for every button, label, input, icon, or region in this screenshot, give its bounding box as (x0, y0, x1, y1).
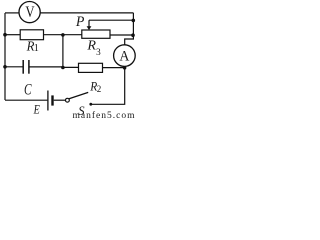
junction middle column / capacitor row (61, 66, 65, 70)
wire top-left segment (5, 12, 19, 14)
wire capacitor row left (5, 66, 23, 68)
svg-text:1: 1 (34, 43, 39, 54)
junction rheostat right / right vertical (131, 33, 135, 37)
switch right contact dot (89, 103, 92, 106)
wire R2 to ammeter branch (103, 67, 125, 69)
svg-text:3: 3 (96, 48, 101, 58)
resistor R1 (20, 30, 43, 40)
wire middle column vertical (62, 35, 64, 68)
capacitor C plates (23, 60, 29, 74)
svg-text:E: E (33, 102, 40, 116)
wire right vertical upper with jog to ammeter (125, 13, 134, 45)
svg-text:manfen5.com: manfen5.com (73, 110, 136, 120)
wire capacitor to R2 (29, 66, 79, 69)
wire wiper connection (89, 19, 133, 21)
wire left vertical (4, 13, 6, 100)
wire battery to switch (54, 99, 66, 101)
ammeter A (114, 45, 136, 67)
svg-text:V: V (25, 4, 35, 21)
svg-text:C: C (24, 81, 32, 98)
svg-text:2: 2 (97, 84, 102, 94)
wire top segment (40, 12, 133, 14)
junction at wiper wire and right vertical (132, 19, 136, 23)
label R3 (86, 38, 101, 58)
switch S lever (69, 92, 88, 98)
label R1 (26, 39, 39, 55)
junction below ammeter (123, 66, 127, 70)
switch S pivot circle (66, 98, 70, 102)
wire ammeter down to bottom corner (91, 66, 125, 104)
junction left vertical / R1 row (3, 33, 7, 37)
wire resistor row (5, 34, 20, 36)
wire bottom left (5, 99, 47, 101)
junction middle column / resistor row (61, 33, 65, 37)
resistor R2 (79, 63, 103, 72)
wire rheostat right to vertical (110, 34, 133, 36)
battery E (48, 91, 53, 111)
junction left vertical / capacitor row (3, 65, 7, 69)
wire between R1 and rheostat (44, 34, 82, 36)
wiper arrow of rheostat (87, 20, 92, 30)
voltmeter V (19, 2, 40, 23)
svg-text:P: P (75, 14, 85, 30)
svg-text:A: A (119, 48, 129, 64)
rheostat R3 body (82, 30, 110, 38)
label R2 (89, 79, 101, 94)
